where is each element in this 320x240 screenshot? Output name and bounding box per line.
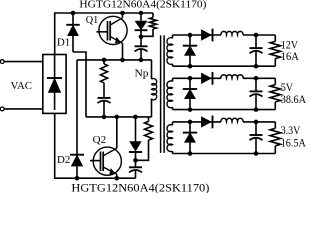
svg-text:VAC: VAC [11, 80, 32, 92]
node junction [115, 115, 120, 120]
node junction [75, 176, 80, 181]
bridge rectifier BR1 [43, 55, 66, 114]
node junction [188, 33, 193, 38]
diode D6 rectifier [201, 29, 212, 42]
diode D10 rectifier [201, 116, 212, 129]
node junction [120, 11, 125, 16]
inductor L3 [221, 118, 243, 122]
node junction [139, 11, 144, 16]
diode D4 [129, 117, 142, 160]
svg-text:5V: 5V [281, 82, 294, 94]
transistor Q2 [90, 117, 121, 178]
wire [151, 99, 153, 117]
node junction [71, 11, 76, 16]
wire [73, 52, 86, 117]
transformer secondary Ns2 [167, 78, 173, 109]
node junction [102, 115, 107, 120]
wire [173, 65, 276, 67]
svg-text:D1: D1 [57, 36, 70, 48]
wire [55, 113, 136, 178]
wire [173, 34, 222, 36]
node junction [254, 33, 259, 38]
node junction [120, 58, 125, 63]
wire [76, 60, 78, 155]
resistor R2 [101, 60, 108, 98]
node junction [115, 176, 120, 181]
wire [151, 60, 153, 79]
svg-text:Q2: Q2 [93, 134, 107, 146]
wire [243, 77, 275, 79]
wire [243, 34, 275, 36]
node junction [133, 158, 138, 163]
node AC input terminal 1 [0, 60, 4, 64]
diode D5 freewheel [183, 35, 197, 66]
node junction [254, 120, 259, 125]
wire [173, 109, 276, 111]
wire [243, 121, 275, 123]
node junction [254, 107, 259, 112]
svg-text:D2: D2 [57, 154, 70, 166]
transformer secondary Ns1 [167, 35, 173, 66]
wire [55, 13, 153, 55]
svg-text:16.5A: 16.5A [281, 138, 307, 150]
wire [173, 77, 222, 79]
transformer core [161, 35, 165, 153]
svg-text:3.3V: 3.3V [281, 125, 301, 137]
node junction [139, 58, 144, 63]
node junction [188, 76, 193, 81]
svg-text:16A: 16A [281, 51, 300, 63]
resistor R5 load [270, 78, 280, 109]
svg-text:Q1: Q1 [86, 14, 99, 26]
node junction [188, 120, 193, 125]
node junction [102, 58, 107, 63]
inductor L2 [221, 75, 243, 79]
wire [77, 59, 152, 61]
resistor R4 load [270, 35, 280, 66]
diode D7 freewheel [183, 78, 197, 109]
node junction [188, 107, 193, 112]
node junction [254, 151, 259, 156]
wire [86, 116, 152, 118]
wire [4, 108, 43, 110]
capacitor C3 [129, 160, 142, 178]
svg-text:12V: 12V [281, 39, 299, 51]
capacitor C1 [135, 46, 148, 60]
capacitor C6 [250, 122, 263, 154]
diode D2 [70, 155, 84, 179]
wire [173, 153, 276, 155]
node junction [139, 35, 144, 40]
capacitor C2 [98, 98, 111, 117]
node junction [254, 76, 259, 81]
node AC input terminal 2 [0, 107, 4, 111]
transistor Q1 [97, 13, 128, 60]
node junction [254, 64, 259, 69]
svg-text:38.6A: 38.6A [281, 94, 307, 106]
svg-text:HGTG12N60A4(2SK1170): HGTG12N60A4(2SK1170) [79, 0, 206, 11]
resistor R6 load [270, 122, 280, 154]
inductor L1 [221, 31, 243, 35]
diode D1 [66, 13, 79, 52]
capacitor C5 [250, 78, 263, 109]
svg-text:HGTG12N60A4(2SK1170): HGTG12N60A4(2SK1170) [71, 180, 209, 193]
resistor R1 [141, 13, 156, 36]
transformer secondary Ns3 [167, 122, 172, 154]
node junction [133, 115, 138, 120]
wire [4, 61, 43, 63]
node junction [188, 151, 193, 156]
diode D3 [135, 13, 148, 46]
capacitor C4 [250, 35, 263, 66]
diode D8 rectifier [201, 72, 212, 85]
svg-text:Np: Np [135, 68, 150, 80]
wire [173, 121, 222, 123]
transformer primary Np [152, 79, 157, 100]
resistor R3 [136, 117, 153, 160]
node junction [188, 64, 193, 69]
diode D9 freewheel [183, 122, 197, 154]
